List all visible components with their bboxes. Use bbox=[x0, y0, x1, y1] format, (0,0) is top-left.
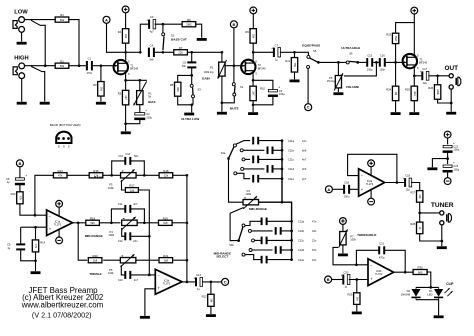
svg-text:S4a: S4a bbox=[221, 151, 226, 155]
svg-text:EQ/BYPASS: EQ/BYPASS bbox=[302, 44, 320, 48]
label EQ/BYPASS bbox=[302, 44, 320, 48]
node R5/C2 join bbox=[124, 122, 127, 125]
label C12e bbox=[298, 258, 305, 262]
svg-text:C15: C15 bbox=[367, 53, 372, 57]
svg-text:100k: 100k bbox=[350, 238, 356, 242]
svg-text:C10: C10 bbox=[125, 152, 130, 156]
potentiometer P6 VOLUME bbox=[334, 73, 343, 90]
svg-text:BF245 (BOTTOM VIEW): BF245 (BOTTOM VIEW) bbox=[50, 123, 81, 127]
wire C12c to bus bbox=[267, 239, 292, 241]
wire +V to P7 bbox=[342, 225, 344, 232]
wire S4b to C12c bbox=[254, 239, 261, 241]
svg-text:47k: 47k bbox=[34, 244, 38, 249]
wire S4b to C12e bbox=[245, 255, 262, 260]
label TUNER bbox=[431, 202, 454, 209]
svg-text:47k: 47k bbox=[18, 196, 22, 201]
wire tuner node to jack bbox=[420, 212, 440, 214]
capacitor C12c bbox=[261, 237, 268, 245]
wire C11 left bracket bbox=[111, 209, 125, 223]
svg-text:SELECT: SELECT bbox=[216, 255, 228, 259]
wire R20 to P5 bbox=[103, 259, 120, 261]
node volume top bbox=[337, 61, 340, 64]
wire T3 source lead bbox=[413, 68, 415, 76]
wire R21 to bus bbox=[173, 259, 187, 261]
wire R29 top stub bbox=[356, 280, 358, 293]
wire S4a to C11d bbox=[244, 168, 265, 170]
resistor R11 bbox=[285, 58, 297, 73]
wire C11 right bracket bbox=[131, 209, 145, 223]
svg-text:C7: C7 bbox=[275, 43, 279, 47]
svg-text:22µ: 22µ bbox=[423, 82, 428, 85]
svg-text:R7: R7 bbox=[179, 46, 183, 50]
svg-text:LOW: LOW bbox=[14, 10, 28, 16]
resistor R30 bbox=[413, 266, 427, 275]
svg-text:R23: R23 bbox=[386, 32, 391, 36]
wire R27 to tuner node bbox=[419, 202, 421, 222]
svg-text:B: B bbox=[232, 22, 235, 27]
op-amp IC2a bbox=[359, 169, 385, 196]
wire HIGH jack sleeve to ground bbox=[21, 79, 23, 102]
transistor T1 bbox=[114, 60, 139, 76]
capacitor C11 bbox=[124, 205, 131, 213]
wire R25 to ground bbox=[413, 100, 415, 112]
node R10/C6 join bbox=[252, 103, 255, 106]
wire R24 to ground bbox=[395, 100, 397, 112]
svg-text:100µ: 100µ bbox=[453, 148, 459, 152]
wire C7 to R11/S5 bbox=[280, 52, 309, 55]
svg-text:BASS CUT: BASS CUT bbox=[171, 38, 187, 42]
resistor R3 bbox=[93, 82, 104, 97]
node bass left bbox=[110, 174, 113, 177]
capacitor C6 bbox=[268, 86, 280, 97]
svg-text:6n8: 6n8 bbox=[302, 149, 307, 153]
node C11e bus bbox=[281, 177, 284, 180]
svg-text:47k: 47k bbox=[58, 174, 63, 178]
wire HIGH jack tip row bbox=[25, 65, 56, 67]
label C11d bbox=[288, 167, 295, 171]
svg-text:220µ: 220µ bbox=[279, 92, 285, 96]
label C6 bbox=[279, 89, 283, 93]
switch S4a contact d bbox=[241, 167, 244, 170]
node wiper bus C12 bbox=[148, 235, 151, 238]
wire P5 wiper to C13 bbox=[121, 265, 125, 275]
svg-text:10n: 10n bbox=[302, 139, 307, 143]
wire R10 to ground bbox=[252, 100, 254, 112]
potentiometer P4 (select view) bbox=[243, 196, 258, 209]
label C11 bbox=[118, 202, 123, 206]
svg-text:330p: 330p bbox=[367, 69, 373, 72]
wire C11b to bus bbox=[273, 149, 282, 151]
svg-text:470p: 470p bbox=[379, 257, 385, 260]
resistor R9 bbox=[245, 29, 256, 44]
capacitor C13 bbox=[124, 271, 131, 279]
switch S1 contact top bbox=[232, 83, 235, 86]
node C9/R14 join bbox=[34, 259, 37, 262]
svg-text:C12: C12 bbox=[118, 239, 123, 243]
wire P6 to ground bbox=[337, 88, 339, 92]
label P5 value bbox=[108, 271, 114, 275]
ground P2 bbox=[217, 112, 227, 115]
svg-text:B: B bbox=[327, 277, 330, 282]
node C11a bus bbox=[281, 139, 284, 142]
switch S2 arm bbox=[163, 36, 164, 50]
wire R3 top bbox=[100, 66, 102, 82]
svg-text:R18: R18 bbox=[163, 169, 169, 173]
node T2 gate bbox=[233, 64, 236, 67]
wire C9 bottom bbox=[21, 250, 36, 261]
wire R7 to gain pot bbox=[187, 52, 222, 62]
resistor R5 bbox=[118, 90, 129, 105]
label P6 bbox=[329, 76, 333, 80]
node T2 source bbox=[252, 79, 255, 82]
wire C23 to -V bbox=[447, 171, 449, 178]
svg-text:R10: R10 bbox=[260, 86, 265, 90]
svg-text:C11e: C11e bbox=[288, 177, 295, 181]
node T2 drain bbox=[252, 51, 255, 54]
svg-text:+: + bbox=[402, 177, 404, 181]
wire +V rail to R23 bbox=[396, 23, 415, 34]
svg-text:R26: R26 bbox=[428, 86, 433, 90]
svg-text:2n7: 2n7 bbox=[302, 177, 307, 181]
resistor R13 bbox=[53, 169, 67, 178]
svg-text:R25: R25 bbox=[405, 87, 410, 91]
resistor R12 bbox=[11, 192, 24, 204]
svg-text:S6: S6 bbox=[349, 52, 353, 56]
label C23 value bbox=[453, 167, 459, 171]
label C22 value bbox=[453, 148, 459, 152]
node S5 common bbox=[317, 61, 320, 64]
wire C18 to IC2a plus bbox=[349, 188, 358, 190]
ground R22 bbox=[206, 314, 216, 317]
svg-text:C11: C11 bbox=[118, 202, 123, 206]
wire P7 to ground bbox=[342, 245, 344, 253]
svg-text:R24: R24 bbox=[386, 87, 391, 91]
node ultra low ground join bbox=[190, 103, 193, 106]
node tuner ground join bbox=[440, 240, 443, 243]
svg-text:470n: 470n bbox=[87, 72, 93, 75]
svg-text:TL072: TL072 bbox=[163, 281, 171, 285]
svg-text:12k: 12k bbox=[164, 174, 169, 178]
wire +V to R4 bbox=[125, 13, 127, 29]
label R14 bbox=[40, 240, 45, 244]
node T3 source bbox=[413, 74, 416, 77]
node IC2a output bbox=[396, 181, 399, 184]
svg-text:1k8: 1k8 bbox=[93, 259, 98, 263]
node B (EQ input) bbox=[16, 160, 23, 167]
svg-text:G: G bbox=[63, 145, 65, 149]
node C3/S2 bbox=[162, 23, 165, 26]
ground ULTRA LOW bbox=[184, 113, 194, 116]
label P7 value bbox=[350, 238, 356, 242]
wire OUT sleeve down bbox=[450, 89, 452, 112]
node T3 gate divider bbox=[394, 61, 397, 64]
node LOW/HIGH join bbox=[44, 64, 47, 67]
wire P2 wiper to T2 gate bbox=[225, 65, 241, 67]
svg-text:R15: R15 bbox=[93, 169, 99, 173]
wire C5 bottom lead bbox=[191, 68, 193, 76]
svg-text:BF245: BF245 bbox=[258, 66, 266, 70]
trimmer P1 bbox=[134, 81, 156, 105]
svg-text:R6: R6 bbox=[187, 18, 191, 22]
svg-text:10k: 10k bbox=[252, 34, 256, 39]
wire T3 drain lead bbox=[413, 23, 415, 54]
svg-text:R28: R28 bbox=[410, 222, 415, 226]
label C12 value bbox=[133, 239, 138, 243]
wire R11 top stub bbox=[294, 52, 296, 58]
svg-text:TL072: TL072 bbox=[375, 272, 383, 276]
capacitor C1 bbox=[86, 57, 93, 75]
svg-text:56n: 56n bbox=[134, 154, 139, 158]
label C11c bbox=[288, 158, 295, 162]
wire C1 to T1 gate bbox=[92, 65, 114, 67]
switch S4a contact e bbox=[234, 172, 237, 175]
wire C22 to center tap bbox=[447, 151, 449, 164]
wire LOW jack sleeve to ground bbox=[21, 32, 23, 41]
ground LED bbox=[434, 315, 444, 318]
switch S3 contact bottom bbox=[192, 95, 195, 98]
label THRESHOLD bbox=[357, 233, 377, 237]
label ULTRA HIGH bbox=[341, 46, 360, 50]
wire R19 to bus bbox=[172, 222, 187, 224]
svg-text:R27: R27 bbox=[410, 190, 415, 194]
ground LOW jack bbox=[17, 42, 27, 45]
capacitor C12 bbox=[124, 232, 131, 240]
wire IC1a -supply stub bbox=[58, 229, 60, 237]
resistor R20 bbox=[88, 254, 102, 263]
svg-text:TREBLE: TREBLE bbox=[89, 272, 101, 276]
svg-text:R12: R12 bbox=[11, 192, 16, 196]
svg-text:+: + bbox=[145, 109, 147, 113]
svg-text:C11a: C11a bbox=[288, 139, 295, 143]
wire R13 to R15 bbox=[67, 174, 89, 176]
wire S5 contact2 to node C bbox=[307, 68, 309, 103]
label OUT bbox=[445, 65, 459, 72]
switch S4a contact a bbox=[233, 144, 236, 147]
svg-text:C12d: C12d bbox=[298, 248, 305, 252]
resistor R7 bbox=[174, 46, 188, 55]
ground P6 bbox=[333, 92, 343, 95]
node T1 drain bbox=[124, 51, 127, 54]
wire C11e to bus bbox=[258, 178, 282, 180]
ground R3 bbox=[96, 102, 106, 105]
wire C20 to IC2b plus bbox=[349, 279, 368, 281]
node supply center bbox=[446, 157, 449, 160]
node C3/C4 left bbox=[139, 51, 142, 54]
svg-text:22k: 22k bbox=[178, 51, 183, 55]
svg-text:4n7: 4n7 bbox=[134, 278, 139, 282]
label P4 select bbox=[247, 189, 251, 193]
switch S5 arm bbox=[310, 58, 318, 62]
node C5/R8/S3 bbox=[190, 74, 193, 77]
wire P7 wiper to IC2b minus bbox=[333, 247, 368, 264]
wire R18 to feedback bus bbox=[173, 174, 187, 176]
label C10 bbox=[118, 154, 123, 158]
svg-text:S1: S1 bbox=[240, 85, 244, 89]
capacitor C8 bbox=[15, 174, 27, 185]
power + IC1a bbox=[56, 200, 63, 207]
svg-text:BF245: BF245 bbox=[130, 67, 138, 71]
svg-text:R21: R21 bbox=[163, 254, 169, 258]
wire C12 to wiper bus bbox=[131, 235, 150, 237]
wire B to C8 bbox=[19, 167, 21, 178]
label C11b value bbox=[302, 149, 307, 153]
svg-text:D: D bbox=[128, 60, 130, 64]
svg-text:C16: C16 bbox=[380, 53, 385, 57]
wire minus to C21 bbox=[356, 250, 378, 264]
label C11b bbox=[288, 149, 295, 153]
ground HIGH jack switch bbox=[40, 102, 50, 105]
ground R10 bbox=[248, 112, 258, 115]
wire S6 to C15 bbox=[358, 61, 368, 63]
wire drain rail to C3/C4 split bbox=[126, 51, 141, 53]
label P3 value bbox=[108, 186, 114, 190]
svg-text:TUNER: TUNER bbox=[431, 202, 454, 209]
label GAIN bbox=[202, 76, 211, 80]
transistor T3 bbox=[403, 54, 428, 70]
capacitor C11a bbox=[252, 137, 259, 145]
wire +V to R9 bbox=[252, 14, 254, 29]
svg-text:33n: 33n bbox=[312, 229, 317, 233]
ground R5/C2 bbox=[121, 131, 131, 134]
svg-text:C12b: C12b bbox=[298, 229, 305, 233]
svg-text:10k: 10k bbox=[418, 194, 422, 199]
ground R6 bbox=[197, 38, 207, 41]
svg-text:680: 680 bbox=[418, 270, 423, 274]
label C5 bbox=[183, 61, 187, 65]
switch S4a arm bbox=[229, 147, 234, 159]
wire LED bottom rail bbox=[416, 300, 439, 316]
capacitor C12b bbox=[275, 227, 282, 235]
svg-text:2M2: 2M2 bbox=[394, 36, 398, 42]
wire S5 to volume bbox=[318, 61, 346, 63]
node C12a bus bbox=[290, 220, 293, 223]
label C12d value bbox=[312, 248, 317, 252]
node A (supply rail tap) bbox=[103, 16, 110, 23]
wire C3 to R6 bbox=[155, 23, 183, 25]
resistor R15 bbox=[89, 169, 103, 178]
capacitor C22 bbox=[443, 142, 455, 153]
svg-text:MID-RANGE: MID-RANGE bbox=[249, 207, 267, 211]
node OUT/R26 bbox=[436, 74, 439, 77]
power - IC1a bbox=[56, 237, 63, 244]
node C11b bus bbox=[281, 149, 284, 152]
diode D2 1N4148 bbox=[401, 287, 421, 299]
wire R6 to ground bbox=[196, 24, 202, 38]
capacitor C2 bbox=[134, 109, 147, 120]
label S6 bbox=[349, 52, 353, 56]
label C12c value bbox=[312, 239, 317, 243]
capacitor C9 bbox=[16, 243, 25, 250]
svg-text:C3: C3 bbox=[150, 15, 154, 19]
wire LOW jack switch contact bbox=[31, 20, 45, 65]
label HIGH bbox=[14, 56, 29, 62]
wire T2 source lead bbox=[252, 74, 254, 80]
resistor R16 bbox=[86, 216, 100, 225]
svg-text:(V 2.1 07/08/2002): (V 2.1 07/08/2002) bbox=[32, 311, 92, 320]
svg-text:10k: 10k bbox=[124, 34, 128, 39]
label C2 bbox=[146, 112, 150, 116]
label P3 bbox=[109, 183, 113, 187]
node OUT ground join bbox=[450, 102, 453, 105]
label C11e value bbox=[302, 177, 307, 181]
svg-text:R30: R30 bbox=[418, 266, 424, 270]
svg-text:D: D bbox=[58, 145, 60, 149]
svg-text:GAIN: GAIN bbox=[202, 76, 211, 80]
node IC1a minus bbox=[34, 214, 37, 217]
wire R1 to HIGH line bbox=[69, 20, 79, 66]
wire C12b to bus bbox=[281, 230, 292, 232]
resistor R19 bbox=[159, 216, 173, 225]
wire R30 to LEDs bbox=[427, 272, 431, 287]
node C5 tap bbox=[190, 51, 193, 54]
label C12b value bbox=[312, 229, 317, 233]
ground IC1b plus bbox=[140, 316, 150, 319]
wire P3 wiper to R17 bbox=[122, 180, 125, 190]
ground R11 bbox=[290, 80, 300, 83]
label C6 value bbox=[279, 92, 285, 96]
power - IC2a bbox=[368, 198, 375, 205]
wire center tap to ground bbox=[432, 159, 447, 168]
resistor R6 bbox=[182, 18, 196, 27]
svg-text:www.albertkreuzer.com: www.albertkreuzer.com bbox=[21, 300, 104, 309]
svg-text:100k: 100k bbox=[245, 192, 251, 196]
resistor R8 bbox=[170, 82, 181, 96]
svg-text:2M2: 2M2 bbox=[186, 23, 192, 27]
resistor R10 bbox=[250, 86, 256, 101]
svg-text:R14: R14 bbox=[40, 240, 45, 244]
svg-text:9n8: 9n8 bbox=[149, 59, 154, 62]
power +V threshold bbox=[340, 218, 347, 225]
capacitor C11e bbox=[252, 175, 259, 183]
label C22 bbox=[453, 145, 458, 149]
label P2 value bbox=[204, 70, 214, 74]
svg-text:R22: R22 bbox=[202, 294, 207, 298]
svg-text:22n: 22n bbox=[133, 239, 138, 243]
svg-text:4µ7: 4µ7 bbox=[149, 30, 154, 33]
node C12e bus bbox=[290, 258, 293, 261]
svg-text:VOLUME: VOLUME bbox=[346, 85, 359, 89]
wire C8 to R12 bbox=[19, 184, 21, 192]
wire R3 to ground bbox=[100, 96, 102, 101]
capacitor C4 bbox=[148, 43, 155, 61]
wire S4a to C11b bbox=[243, 149, 264, 151]
wire C2 to ground bbox=[126, 119, 140, 124]
transistor T2 bbox=[241, 59, 266, 75]
label C12d bbox=[298, 248, 305, 252]
resistor R27 bbox=[410, 190, 423, 202]
svg-text:3k3: 3k3 bbox=[413, 91, 417, 96]
svg-text:S: S bbox=[417, 66, 419, 70]
wire IC1a plus input bbox=[21, 226, 47, 228]
label S2 bbox=[171, 34, 175, 38]
node C (EQ output) bbox=[222, 278, 229, 285]
svg-text:ULTRA HIGH: ULTRA HIGH bbox=[341, 46, 360, 50]
svg-text:C11c: C11c bbox=[288, 158, 295, 162]
potentiometer P2 GAIN bbox=[218, 60, 227, 79]
capacitor C15 bbox=[366, 53, 373, 71]
wire C5 top lead bbox=[191, 52, 193, 62]
switch S4b arm bbox=[239, 227, 243, 241]
svg-text:R17: R17 bbox=[129, 184, 135, 188]
label S1 bbox=[240, 85, 244, 89]
svg-text:R9: R9 bbox=[245, 30, 249, 34]
wire C12d to bus bbox=[281, 249, 292, 251]
svg-text:100k: 100k bbox=[108, 233, 114, 237]
wire B to C20 bbox=[332, 279, 344, 281]
wire LED top rail bbox=[416, 286, 439, 288]
wire source to bias trimmer bbox=[126, 79, 147, 81]
wire R26 top stub bbox=[437, 76, 439, 85]
